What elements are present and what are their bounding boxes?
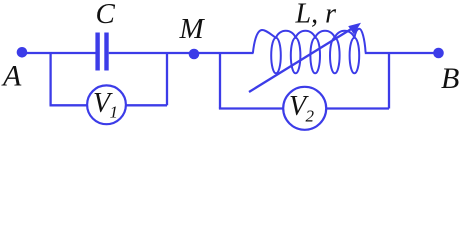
svg-text:M: M: [179, 13, 206, 45]
svg-text:L, r: L, r: [295, 0, 337, 29]
svg-text:C: C: [96, 0, 116, 30]
node A: [17, 47, 28, 58]
svg-text:B: B: [441, 62, 459, 95]
wire: V2 branch left vertical: [219, 53, 221, 109]
wire: V2 branch right vertical: [388, 53, 390, 109]
wire: V1 branch bottom right: [125, 104, 167, 106]
wire capacitor to coil: [109, 52, 254, 54]
svg-text:2: 2: [306, 106, 315, 125]
variable arrow through inductor: [249, 23, 361, 92]
svg-text:1: 1: [110, 103, 119, 122]
capacitor C1 plates: [95, 33, 108, 71]
node B: [433, 48, 444, 59]
node M: [189, 49, 200, 60]
wire: V1 branch left vertical: [49, 53, 51, 105]
wire: V1 branch bottom left: [50, 104, 89, 106]
voltmeter V2: [283, 87, 326, 130]
inductor L coil: [253, 29, 366, 74]
voltmeter V1: [87, 85, 126, 124]
svg-text:A: A: [1, 59, 22, 92]
wire: V2 branch bottom right: [326, 107, 389, 109]
wire: V1 branch right vertical: [166, 53, 168, 105]
wire coil to B: [365, 52, 439, 54]
wire: V2 branch bottom left: [219, 107, 284, 109]
wire A to capacitor: [22, 52, 96, 54]
